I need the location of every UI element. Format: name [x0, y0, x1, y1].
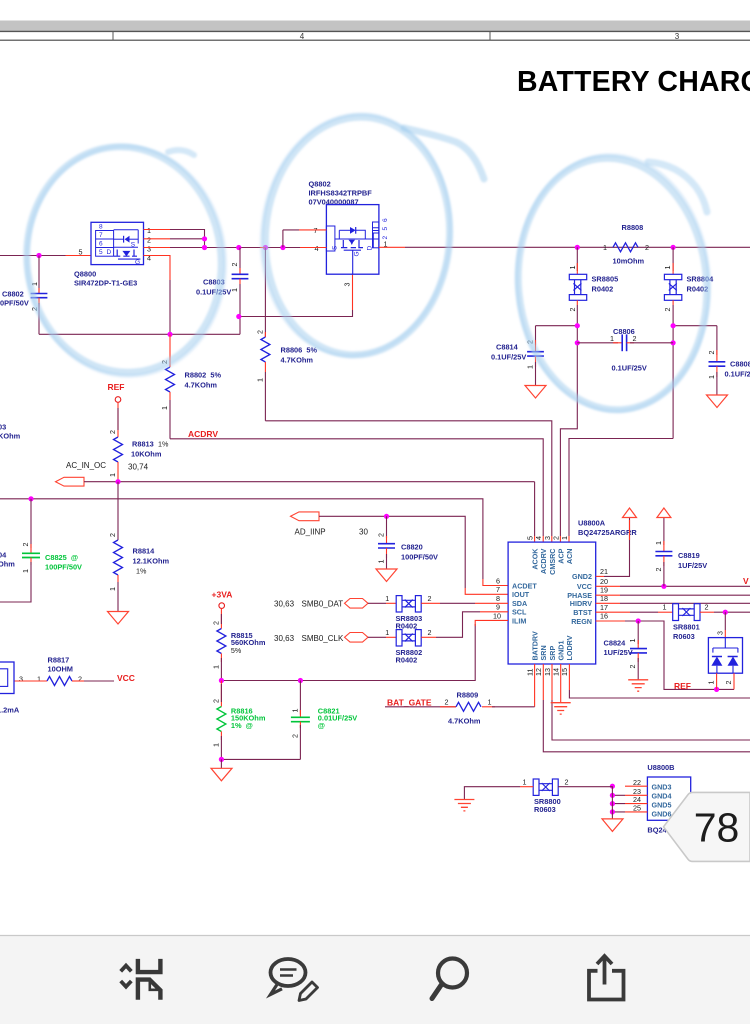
annotation highlighter circle 1 — [14, 136, 235, 385]
annotation highlighter circle 3 — [508, 150, 717, 418]
svg-text:S: S — [332, 245, 339, 250]
svg-text:1: 1 — [290, 709, 299, 713]
svg-text:0.1UF/25V: 0.1UF/25V — [612, 364, 647, 373]
svg-text:6: 6 — [496, 577, 500, 586]
svg-text:20: 20 — [600, 577, 608, 586]
svg-text:2: 2 — [230, 263, 239, 267]
svg-text:30,74: 30,74 — [128, 463, 149, 472]
svg-text:+3VA: +3VA — [212, 590, 233, 600]
wire U8800B ground pins — [610, 784, 648, 819]
wire SRP net — [552, 664, 750, 740]
svg-text:10: 10 — [493, 611, 501, 620]
svg-text:6: 6 — [382, 218, 389, 222]
wire Q8800 pin3 main rail — [144, 245, 327, 254]
svg-text:8: 8 — [99, 224, 103, 231]
svg-text:2: 2 — [565, 778, 569, 787]
svg-text:1: 1 — [377, 560, 386, 564]
svg-text:GND6: GND6 — [652, 810, 672, 819]
wire Q8800 pin1 — [144, 226, 205, 239]
svg-text:1: 1 — [610, 334, 614, 343]
ground earth GND1 — [551, 703, 571, 714]
port SMB0_CLK — [274, 628, 396, 643]
svg-text:4.7KOhm: 4.7KOhm — [185, 381, 218, 390]
svg-text:16: 16 — [600, 612, 608, 621]
page number bubble 78 — [664, 792, 750, 861]
svg-text:30,63: 30,63 — [274, 600, 295, 609]
svg-text:KOhm: KOhm — [0, 432, 21, 441]
svg-text:1: 1 — [37, 674, 41, 683]
svg-text:9: 9 — [496, 603, 500, 612]
port SMB0_DAT — [274, 594, 396, 609]
svg-text:25: 25 — [633, 804, 641, 813]
svg-text:2: 2 — [255, 330, 264, 334]
svg-text:LODRV: LODRV — [565, 635, 574, 660]
wire R8816 bottom node — [219, 757, 301, 768]
svg-text:3: 3 — [715, 631, 724, 635]
svg-text:1: 1 — [523, 778, 527, 787]
svg-text:U8800A: U8800A — [578, 519, 606, 528]
svg-text:15: 15 — [560, 668, 569, 676]
wire VCC net — [596, 576, 750, 589]
svg-text:R0402: R0402 — [396, 656, 418, 665]
pin names bottom U8800A — [526, 631, 574, 676]
svg-text:1: 1 — [21, 569, 30, 573]
svg-text:D: D — [107, 249, 112, 256]
svg-text:SR8801: SR8801 — [673, 623, 700, 632]
svg-text:R8809: R8809 — [457, 691, 479, 700]
fuse SR8802 — [396, 630, 423, 665]
label cut left KOhm — [0, 423, 21, 441]
svg-text:R0603: R0603 — [673, 632, 695, 641]
svg-text:1%: 1% — [136, 567, 147, 576]
svg-text:2: 2 — [568, 308, 577, 312]
svg-text:10KOhm: 10KOhm — [131, 450, 162, 459]
fuse SR8805 — [568, 247, 618, 311]
svg-text:1: 1 — [108, 587, 117, 591]
wire diode pins to REF — [707, 673, 734, 689]
svg-text:0PF/50V: 0PF/50V — [0, 299, 29, 308]
svg-text:Ohm: Ohm — [0, 560, 15, 569]
svg-text:2: 2 — [78, 674, 82, 683]
toolbar icon share — [589, 956, 624, 1000]
capacitor C8802 — [0, 256, 47, 335]
svg-text:IOUT: IOUT — [512, 590, 530, 599]
svg-text:R8808: R8808 — [622, 223, 644, 232]
svg-text:21: 21 — [600, 567, 608, 576]
svg-text:1: 1 — [230, 288, 239, 292]
svg-text:R8813: R8813 — [132, 440, 158, 449]
wire CMSRC net — [265, 421, 551, 542]
svg-text:1: 1 — [603, 243, 607, 252]
svg-text:VCC: VCC — [117, 673, 135, 683]
wire long ACDET net — [0, 482, 508, 586]
wire Q8802 pin1 main rail right — [379, 240, 750, 250]
fuse SR8803 — [396, 596, 423, 631]
wire Q8802 pin7 — [283, 226, 327, 248]
svg-text:17: 17 — [600, 603, 608, 612]
svg-text:REGN: REGN — [571, 617, 592, 626]
svg-text:4.7KOhm: 4.7KOhm — [281, 356, 314, 365]
op-amp U8800A charger IC — [508, 519, 637, 665]
fuse SR8800 — [464, 778, 612, 814]
wire BTST right of fuse — [700, 603, 750, 638]
svg-text:4: 4 — [147, 254, 151, 263]
capacitor C8819 — [654, 518, 707, 587]
pin names left U8800A — [493, 577, 537, 626]
svg-text:C8802: C8802 — [2, 290, 24, 299]
svg-text:C8808: C8808 — [730, 360, 750, 369]
svg-text:0.1UF/25V: 0.1UF/25V — [196, 288, 231, 297]
svg-text:R0402: R0402 — [592, 285, 614, 294]
capacitor C8814 — [491, 326, 544, 385]
toolbar icon annotate — [271, 959, 318, 1001]
wire BTST net — [596, 603, 673, 613]
svg-text:7: 7 — [99, 232, 103, 239]
svg-text:2: 2 — [705, 603, 709, 612]
wire Q8802 pin4 — [260, 244, 326, 253]
wire PHASE net — [596, 594, 750, 596]
wire BATDRV / BAT_GATE net — [385, 664, 535, 707]
svg-text:30,63: 30,63 — [274, 634, 295, 643]
fuse SR8801 — [673, 604, 700, 641]
svg-text:C8820: C8820 — [401, 543, 423, 552]
diode D8800 dual — [708, 638, 742, 674]
svg-text:GND2: GND2 — [572, 572, 592, 581]
svg-text:@: @ — [318, 721, 325, 730]
svg-text:5: 5 — [99, 249, 103, 256]
ground under U8800B — [602, 819, 623, 832]
wire SRN net — [543, 664, 750, 752]
svg-text:3: 3 — [19, 674, 23, 683]
svg-text:7: 7 — [314, 226, 318, 235]
svg-text:SMB0_CLK: SMB0_CLK — [302, 634, 344, 643]
svg-text:2: 2 — [654, 568, 663, 572]
transistor Q8802 — [309, 180, 390, 275]
svg-text:AD_IINP: AD_IINP — [295, 528, 326, 537]
svg-text:1: 1 — [211, 743, 220, 747]
ground under C8814 — [525, 386, 546, 399]
part fragment left edge — [0, 662, 20, 715]
wire HIDRV net — [596, 602, 750, 604]
svg-text:3: 3 — [343, 283, 352, 287]
svg-text:BAT_GATE: BAT_GATE — [387, 697, 432, 707]
svg-text:10OHM: 10OHM — [48, 665, 73, 674]
wire SR8804 bottom node — [671, 300, 717, 438]
svg-text:G: G — [354, 251, 361, 256]
svg-text:BATTERY CHARGER: BATTERY CHARGER — [517, 66, 750, 98]
ground earth under C8824 — [628, 680, 648, 691]
svg-text:0.1UF/25V: 0.1UF/25V — [725, 370, 750, 379]
wire ILIM net — [219, 620, 508, 683]
svg-text:G: G — [135, 259, 140, 266]
resistor R8802 — [160, 334, 221, 439]
wire Q8800 pin2 — [144, 236, 208, 248]
svg-text:GND4: GND4 — [652, 791, 672, 800]
svg-text:C8825 @: C8825 @ — [45, 553, 78, 562]
toolbar background — [0, 936, 750, 1024]
svg-text:R0603: R0603 — [534, 805, 556, 814]
label cut left Ohm — [0, 551, 15, 569]
svg-text:R8802 5%: R8802 5% — [185, 371, 222, 380]
svg-text:1: 1 — [663, 266, 672, 270]
resistor R8815 — [211, 608, 265, 680]
wire left input rail — [0, 255, 91, 257]
svg-text:V: V — [743, 576, 749, 586]
svg-text:2: 2 — [445, 697, 449, 706]
svg-text:1: 1 — [385, 594, 389, 603]
svg-text:SR8805: SR8805 — [592, 275, 619, 284]
svg-text:3: 3 — [147, 245, 151, 254]
svg-text:5%: 5% — [231, 646, 242, 655]
svg-text:1UF/25V: 1UF/25V — [678, 561, 707, 570]
wire ACOK drop — [534, 482, 536, 542]
port AD_IINP — [291, 512, 509, 594]
svg-text:Q8800: Q8800 — [74, 270, 96, 279]
svg-text:IRFHS8342TRPBF: IRFHS8342TRPBF — [309, 189, 373, 198]
svg-text:4: 4 — [315, 244, 319, 253]
wire Q8800 pin4 to bottom rail — [144, 254, 171, 335]
capacitor C8806 — [577, 327, 673, 373]
svg-text:1: 1 — [707, 681, 716, 685]
port AC_IN_OC — [56, 461, 535, 486]
capacitor C8809 right edge — [707, 326, 750, 395]
capacitor C8821 — [290, 681, 357, 760]
svg-text:1: 1 — [568, 266, 577, 270]
svg-text:2: 2 — [428, 594, 432, 603]
svg-text:ACN: ACN — [565, 549, 574, 565]
svg-text:2: 2 — [663, 308, 672, 312]
svg-text:100PF/50V: 100PF/50V — [401, 553, 438, 562]
svg-text:VCC: VCC — [577, 582, 592, 591]
svg-text:12.1KOhm: 12.1KOhm — [133, 557, 170, 566]
svg-text:2: 2 — [21, 543, 30, 547]
svg-text:1: 1 — [211, 665, 220, 669]
resistor R8806 — [255, 248, 317, 421]
power flag GND2 — [623, 508, 637, 518]
svg-text:2: 2 — [290, 734, 299, 738]
svg-text:1% @: 1% @ — [231, 721, 253, 730]
capacitor C8803 — [196, 248, 248, 335]
svg-text:1: 1 — [654, 541, 663, 545]
node REF — [108, 382, 125, 402]
svg-text:2: 2 — [633, 334, 637, 343]
svg-text:1: 1 — [560, 536, 569, 540]
svg-text:2: 2 — [377, 533, 386, 537]
toolbar icon search — [432, 959, 467, 999]
ground earth SR8800 — [454, 800, 474, 811]
svg-text:AC_IN_OC: AC_IN_OC — [66, 461, 106, 470]
svg-text:78: 78 — [694, 805, 740, 851]
pin names right U8800A — [567, 567, 608, 626]
svg-text:1: 1 — [160, 406, 169, 410]
svg-text:SDA: SDA — [512, 599, 527, 608]
svg-text:100PF/50V: 100PF/50V — [45, 563, 82, 572]
pin names top U8800A — [531, 548, 574, 575]
svg-text:BQ24725ARGRR: BQ24725ARGRR — [578, 528, 637, 537]
svg-text:1: 1 — [526, 365, 535, 369]
capacitor C8820 — [377, 516, 439, 568]
svg-text:2: 2 — [147, 236, 151, 245]
wire ACDRV net — [170, 429, 543, 542]
svg-text:SMB0_DAT: SMB0_DAT — [302, 600, 344, 609]
svg-text:1: 1 — [663, 603, 667, 612]
svg-text:SIR472DP-T1-GE3: SIR472DP-T1-GE3 — [74, 279, 137, 288]
wire ACN net — [569, 439, 673, 543]
svg-text:2: 2 — [707, 351, 716, 355]
wire Q8802 source to C8803 node — [236, 274, 352, 319]
resistor R8813 — [108, 402, 169, 481]
svg-text:ACDRV: ACDRV — [188, 429, 218, 439]
ground under R8814 — [108, 612, 129, 625]
svg-text:5: 5 — [79, 248, 83, 257]
svg-text:22: 22 — [633, 778, 641, 787]
svg-text:R8814: R8814 — [133, 547, 156, 556]
svg-text:10mOhm: 10mOhm — [613, 257, 645, 266]
svg-text:2: 2 — [211, 621, 220, 625]
wire SR8805 bottom node — [536, 300, 580, 542]
svg-text:1: 1 — [488, 697, 492, 706]
annotation highlighter circle 2 — [250, 105, 484, 365]
svg-text:D: D — [367, 246, 374, 251]
svg-text:1: 1 — [707, 375, 716, 379]
wire bottom rail y334 — [39, 332, 240, 337]
svg-text:1: 1 — [385, 628, 389, 637]
svg-text:HIDRV: HIDRV — [570, 599, 592, 608]
svg-text:BTST: BTST — [573, 608, 592, 617]
svg-text:2: 2 — [724, 681, 733, 685]
ground under C8809 — [707, 395, 728, 408]
wire LODRV net — [569, 664, 750, 698]
wire SDA net — [421, 594, 508, 603]
svg-text:1: 1 — [108, 473, 117, 477]
svg-text:U8800B: U8800B — [647, 763, 674, 772]
svg-text:ACDET: ACDET — [512, 582, 537, 591]
capacitor C8824 — [604, 621, 648, 680]
pin numbers top U8800A — [526, 536, 569, 540]
fuse SR8804 — [663, 247, 714, 311]
svg-text:2: 2 — [645, 243, 649, 252]
ground under C8820 — [376, 569, 397, 582]
title BATTERY CHARGER — [517, 66, 750, 98]
svg-text:1%: 1% — [158, 440, 169, 449]
node +3VA — [212, 590, 233, 609]
label Q8800 value — [74, 270, 137, 288]
resistor R8808 — [603, 223, 649, 266]
svg-text:03: 03 — [0, 423, 6, 432]
svg-text:2: 2 — [108, 430, 117, 434]
svg-text:04: 04 — [0, 551, 7, 560]
wire GND2 to power flag — [596, 518, 630, 577]
transistor Q8800 — [79, 222, 144, 266]
svg-text:GND3: GND3 — [652, 782, 672, 791]
svg-text:1: 1 — [255, 378, 264, 382]
resistor R8814 — [108, 533, 169, 611]
svg-text:REF: REF — [108, 382, 125, 392]
svg-text:1.2mA: 1.2mA — [0, 706, 20, 715]
svg-text:8: 8 — [496, 594, 500, 603]
svg-text:ILIM: ILIM — [512, 616, 526, 625]
svg-text:2: 2 — [628, 665, 637, 669]
node junction on left rail — [36, 253, 41, 258]
svg-text:SCL: SCL — [512, 608, 527, 617]
svg-text:Q8802: Q8802 — [309, 180, 331, 189]
svg-text:R8817: R8817 — [48, 656, 70, 665]
ground under R8816 — [211, 768, 232, 781]
svg-text:C8824: C8824 — [604, 639, 627, 648]
svg-text:0.1UF/25V: 0.1UF/25V — [491, 353, 526, 362]
svg-text:6: 6 — [99, 241, 103, 248]
svg-text:1: 1 — [628, 639, 637, 643]
svg-text:5: 5 — [382, 227, 389, 231]
wire SCL net — [421, 612, 508, 638]
svg-text:4.7KOhm: 4.7KOhm — [448, 717, 481, 726]
svg-text:30: 30 — [359, 528, 368, 537]
wire GND1 — [560, 664, 562, 703]
svg-text:C8806: C8806 — [613, 327, 635, 336]
svg-text:REF: REF — [674, 681, 691, 691]
capacitor C8825 branch — [0, 499, 82, 602]
svg-text:C8819: C8819 — [678, 551, 700, 560]
svg-text:2: 2 — [428, 628, 432, 637]
resistor R8817 — [14, 656, 135, 686]
wire REGN net — [596, 618, 734, 692]
chip U8800B — [633, 763, 707, 835]
svg-text:3: 3 — [675, 32, 680, 41]
svg-text:7: 7 — [496, 585, 500, 594]
resistor R8816 — [211, 681, 265, 760]
resistor R8809 — [445, 691, 492, 726]
svg-text:2: 2 — [211, 699, 220, 703]
svg-text:4: 4 — [300, 32, 305, 41]
svg-text:1: 1 — [147, 226, 151, 235]
svg-text:GND5: GND5 — [652, 801, 672, 810]
toolbar icon crop-reflow — [121, 959, 161, 1000]
svg-text:C8814: C8814 — [496, 343, 519, 352]
svg-text:2: 2 — [108, 533, 117, 537]
svg-text:1UF/25V: 1UF/25V — [604, 648, 633, 657]
power flag VCC — [657, 508, 671, 518]
